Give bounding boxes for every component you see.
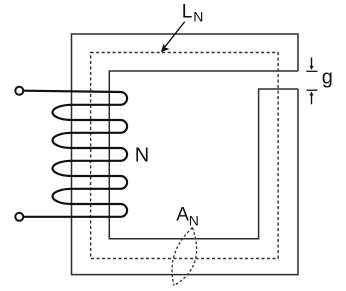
- cross-section indicator ellipse A_N (dashed lens): [172, 228, 197, 286]
- svg-text:N: N: [135, 145, 149, 167]
- svg-text:N: N: [189, 213, 199, 229]
- coil N (winding around left leg) with terminal wires: [24, 91, 128, 217]
- terminal (top): [15, 87, 23, 95]
- svg-text:g: g: [322, 67, 333, 89]
- dashed mean flux path L_N: [91, 53, 279, 259]
- terminal (bottom): [15, 213, 23, 221]
- svg-text:N: N: [193, 9, 203, 25]
- core outer boundary (left, top, bottom, right with gap break): [72, 34, 299, 275]
- gap dimension arrow (lower, pointing up): [306, 90, 317, 104]
- gap dimension arrow (upper, pointing down): [306, 57, 317, 71]
- label A_N: [176, 205, 199, 229]
- label L_N: [182, 2, 204, 25]
- arrow from L_N to flux path: [161, 22, 185, 52]
- svg-text:L: L: [182, 2, 193, 23]
- core inner window boundary and gap faces: [109, 71, 298, 239]
- svg-text:A: A: [176, 205, 189, 226]
